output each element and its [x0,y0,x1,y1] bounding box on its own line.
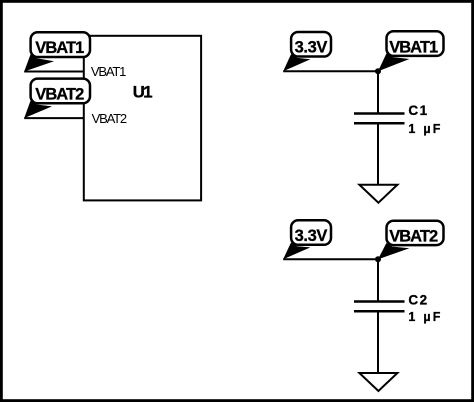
svg-text:U1: U1 [133,83,153,102]
power flag 3.3V (bottom) [283,220,331,259]
svg-text:VBAT1: VBAT1 [35,39,84,57]
svg-text:C1: C1 [408,103,427,118]
svg-text:VBAT2: VBAT2 [389,227,438,245]
capacitor C1 [354,114,405,124]
wire 3.3V to junction (bottom) [283,258,378,260]
junction dot (top) [375,68,381,74]
net flag VBAT2 (left) [24,79,90,119]
svg-text:VBAT2: VBAT2 [92,111,128,126]
svg-text:3.3V: 3.3V [295,39,328,57]
svg-text:C2: C2 [408,292,427,307]
power flag 3.3V (top) [283,32,331,71]
ground (top) [359,185,397,203]
capacitor C2 [354,302,405,312]
svg-text:VBAT1: VBAT1 [389,38,438,56]
ground (bottom) [359,373,397,391]
svg-text:3.3V: 3.3V [295,227,328,245]
IC U1 body [84,36,201,201]
wire junction to C1 [377,71,379,112]
wire pin VBAT2 [24,117,84,119]
wire C1 to ground [377,124,379,184]
junction dot (bottom) [375,256,381,262]
svg-text:VBAT1: VBAT1 [91,64,127,79]
wire pin VBAT1 [24,71,84,73]
net flag VBAT2 (bottom right) [378,221,444,260]
svg-text:1 µF: 1 µF [408,122,440,136]
net flag VBAT1 (left) [24,32,90,71]
svg-text:VBAT2: VBAT2 [35,86,84,104]
wire junction to C2 [377,259,379,300]
svg-text:1 µF: 1 µF [408,310,440,324]
wire C2 to ground [377,312,379,372]
net flag VBAT1 (top right) [378,31,444,71]
wire 3.3V to junction (top) [283,70,378,72]
